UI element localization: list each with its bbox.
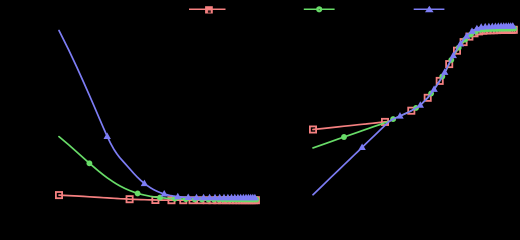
legend entry: blue — [414, 8, 445, 10]
right chart: red series (accuracy) — [313, 30, 514, 130]
legend entry: red — [189, 8, 226, 10]
legend entry: green — [304, 8, 335, 10]
left chart: red series (loss) — [59, 195, 256, 200]
right chart: blue series (accuracy) — [313, 26, 514, 195]
left chart: blue series (loss) — [59, 31, 256, 198]
right chart: green series (accuracy) — [313, 29, 514, 148]
left chart: green series (loss) — [59, 137, 256, 200]
